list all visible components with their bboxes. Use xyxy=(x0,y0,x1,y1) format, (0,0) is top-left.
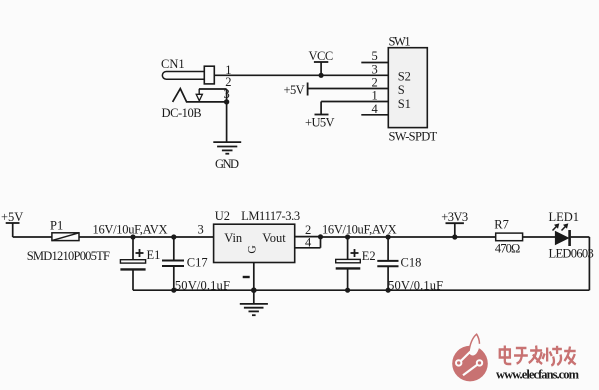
svg-text:3: 3 xyxy=(198,223,204,237)
svg-text:3: 3 xyxy=(372,63,378,77)
svg-text:VCC: VCC xyxy=(309,49,334,63)
svg-text:U2: U2 xyxy=(215,209,230,223)
svg-text:R7: R7 xyxy=(494,218,509,232)
svg-text:5: 5 xyxy=(372,49,378,63)
svg-text:Vout: Vout xyxy=(262,231,286,245)
svg-text:CN1: CN1 xyxy=(161,57,185,71)
svg-text:16V/10uF,AVX: 16V/10uF,AVX xyxy=(322,222,397,236)
svg-text:+5V: +5V xyxy=(1,210,23,224)
svg-text:3: 3 xyxy=(224,87,230,101)
svg-text:LED0603: LED0603 xyxy=(549,246,594,260)
svg-text:+5V: +5V xyxy=(284,83,305,97)
svg-text:GND: GND xyxy=(215,157,239,171)
svg-text:4: 4 xyxy=(372,102,379,116)
svg-text:1: 1 xyxy=(372,89,378,103)
svg-text:S: S xyxy=(398,83,405,97)
svg-text:SW1: SW1 xyxy=(389,35,411,49)
svg-text:E2: E2 xyxy=(362,249,376,263)
svg-text:SMD1210P005TF: SMD1210P005TF xyxy=(27,249,110,263)
svg-text:S1: S1 xyxy=(398,97,411,111)
svg-text:470Ω: 470Ω xyxy=(495,242,520,256)
svg-text:16V/10uF,AVX: 16V/10uF,AVX xyxy=(93,222,168,236)
svg-text:www.elecfans.com: www.elecfans.com xyxy=(496,368,580,382)
svg-text:P1: P1 xyxy=(50,219,63,233)
svg-text:50V/0.1uF: 50V/0.1uF xyxy=(388,279,443,293)
svg-text:LM1117-3.3: LM1117-3.3 xyxy=(241,209,300,223)
svg-text:SW-SPDT: SW-SPDT xyxy=(389,129,438,143)
svg-text:4: 4 xyxy=(305,236,312,250)
svg-text:+U5V: +U5V xyxy=(305,116,335,130)
svg-text:Vin: Vin xyxy=(224,231,243,245)
svg-text:S2: S2 xyxy=(398,69,411,83)
svg-text:+3V3: +3V3 xyxy=(441,210,468,224)
svg-text:E1: E1 xyxy=(147,248,161,262)
svg-text:2: 2 xyxy=(372,76,378,90)
svg-text:50V/0.1uF: 50V/0.1uF xyxy=(175,279,230,293)
svg-text:C18: C18 xyxy=(401,255,422,269)
svg-text:DC-10B: DC-10B xyxy=(162,106,202,120)
svg-text:LED1: LED1 xyxy=(549,210,580,224)
svg-text:C17: C17 xyxy=(187,255,208,269)
svg-text:G: G xyxy=(247,245,259,253)
